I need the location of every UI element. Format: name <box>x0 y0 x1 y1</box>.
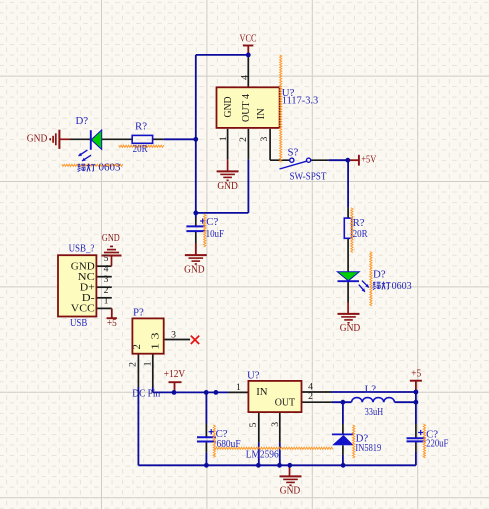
svg-text:L?: L? <box>365 384 377 396</box>
svg-text:U?: U? <box>247 369 260 381</box>
svg-text:USB_?: USB_? <box>69 242 95 254</box>
svg-text:1117-3.3: 1117-3.3 <box>282 94 318 106</box>
svg-text:VCC: VCC <box>71 303 95 315</box>
svg-text:GND: GND <box>102 232 120 244</box>
svg-text:DC Pin: DC Pin <box>132 388 160 400</box>
svg-text:680uF: 680uF <box>217 438 241 450</box>
svg-text:3: 3 <box>259 137 270 142</box>
svg-text:LM2596: LM2596 <box>246 448 279 460</box>
svg-text:5: 5 <box>248 422 259 427</box>
svg-text:R?: R? <box>135 121 147 133</box>
svg-text:2: 2 <box>308 391 313 402</box>
svg-text:GND: GND <box>340 322 361 334</box>
svg-text:1: 1 <box>236 382 241 393</box>
svg-text:+5V: +5V <box>361 154 376 166</box>
svg-text:S?: S? <box>288 146 299 158</box>
svg-text:GND: GND <box>280 485 301 497</box>
svg-text:D?: D? <box>76 115 89 127</box>
svg-text:10uF: 10uF <box>206 228 224 240</box>
svg-text:C?: C? <box>206 216 218 228</box>
svg-text:D?: D? <box>373 269 386 281</box>
svg-text:VCC: VCC <box>240 33 257 45</box>
svg-text:GND: GND <box>217 180 238 192</box>
svg-text:IN: IN <box>256 386 268 398</box>
svg-text:SW-SPST: SW-SPST <box>290 170 327 182</box>
svg-text:20R: 20R <box>353 228 369 240</box>
svg-text:220uF: 220uF <box>426 438 448 450</box>
svg-text:2: 2 <box>238 137 249 142</box>
svg-text:GND: GND <box>27 133 48 145</box>
svg-text:1: 1 <box>104 295 109 306</box>
svg-text:0603: 0603 <box>99 162 121 174</box>
svg-text:OUT: OUT <box>275 397 296 409</box>
svg-text:3: 3 <box>270 422 281 427</box>
svg-text:4: 4 <box>240 75 251 80</box>
svg-text:33uH: 33uH <box>365 406 384 418</box>
svg-text:USB: USB <box>70 317 87 329</box>
svg-text:IN: IN <box>256 108 267 120</box>
svg-text:GND: GND <box>223 96 234 117</box>
svg-text:5: 5 <box>104 253 109 264</box>
svg-text:GND: GND <box>184 264 205 276</box>
svg-text:R?: R? <box>353 217 365 229</box>
svg-text:OUT 4: OUT 4 <box>241 93 252 122</box>
svg-text:0603: 0603 <box>392 280 412 292</box>
svg-text:4: 4 <box>104 264 109 275</box>
svg-text:IN5819: IN5819 <box>355 442 381 454</box>
svg-text:+12V: +12V <box>164 368 186 380</box>
svg-text:2: 2 <box>104 285 109 296</box>
svg-text:1: 1 <box>218 136 229 141</box>
svg-text:1: 1 <box>142 361 153 366</box>
svg-text:P?: P? <box>133 307 144 319</box>
svg-text:2: 2 <box>132 344 143 349</box>
svg-text:+5: +5 <box>411 367 421 379</box>
svg-text:20R: 20R <box>133 143 149 155</box>
svg-text:3: 3 <box>104 274 109 285</box>
svg-text:3: 3 <box>171 330 176 341</box>
svg-text:1 3: 1 3 <box>150 332 161 350</box>
svg-text:+5: +5 <box>107 317 117 329</box>
svg-text:2: 2 <box>128 362 139 367</box>
